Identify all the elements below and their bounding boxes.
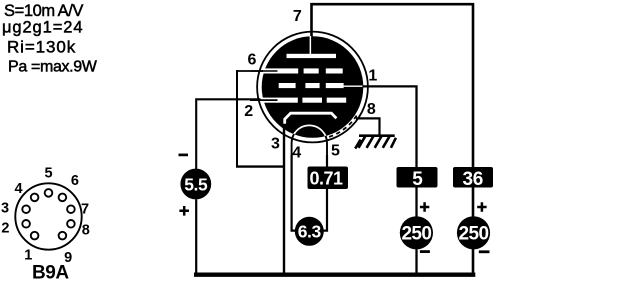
plus sign right 250 <box>477 202 486 211</box>
meter box 5 <box>397 167 438 188</box>
svg-text:7: 7 <box>293 8 302 25</box>
svg-text:2: 2 <box>244 103 253 120</box>
ground chassis symbol <box>355 136 396 149</box>
svg-text:250: 250 <box>459 223 489 244</box>
svg-text:6.3: 6.3 <box>298 221 322 241</box>
svg-text:1: 1 <box>24 248 32 264</box>
svg-text:36: 36 <box>463 169 484 190</box>
bus bottom <box>194 273 475 277</box>
wire horizontal y166.5 to pin3 <box>236 165 285 167</box>
wire pin6 horizontal <box>236 70 278 72</box>
svg-text:3: 3 <box>1 201 9 217</box>
grid row3 dashes <box>277 98 298 103</box>
minus sign 5.5 <box>179 154 189 157</box>
supply circle 250 left <box>400 216 433 249</box>
svg-text:7: 7 <box>81 201 89 217</box>
plus sign 5.5 <box>179 206 189 216</box>
wire pin5 below 0.71 box to 6.3 <box>321 188 327 231</box>
svg-text:0.71: 0.71 <box>309 169 343 189</box>
row1 entry wire <box>251 70 278 72</box>
svg-text:5: 5 <box>412 169 423 190</box>
anode plate bar <box>287 54 337 58</box>
svg-text:6: 6 <box>248 52 257 69</box>
supply circle 250 right <box>457 216 490 249</box>
meter box 0.71 <box>308 167 349 190</box>
svg-text:4: 4 <box>292 145 301 162</box>
wire bias branch below 5.5 to bus <box>195 199 197 275</box>
tube envelope <box>257 32 368 143</box>
svg-text:5: 5 <box>45 165 53 181</box>
svg-text:2: 2 <box>1 221 9 237</box>
wire pin7 top run to right rail <box>312 4 474 167</box>
row3 entry wire <box>250 99 278 101</box>
wire 5-box rail lower <box>415 187 417 217</box>
wire pin2 horizontal to bias branch <box>196 99 277 169</box>
tube black disc <box>262 36 364 138</box>
row1 entry slot <box>263 68 278 73</box>
wire pin4 heater down to 6.3 <box>292 155 298 231</box>
wire 36-box rail lower <box>472 187 475 217</box>
wire pin3 cathode down to bus <box>283 124 285 275</box>
svg-text:6: 6 <box>71 173 79 189</box>
wire pin8 to ground <box>356 118 380 135</box>
socket pin holes <box>22 189 74 239</box>
svg-text:Pa =max.9W: Pa =max.9W <box>8 58 98 75</box>
meter box 36 <box>453 167 493 188</box>
shield dashed arc to pin 8 <box>328 116 357 138</box>
minus sign left 250 <box>420 250 430 253</box>
row3 entry slot <box>261 98 278 103</box>
svg-text:Ri=130k: Ri=130k <box>7 38 76 57</box>
svg-text:3: 3 <box>271 135 280 152</box>
wire pin5 heater to 0.71 box <box>326 155 328 168</box>
wire junction vertical x237 <box>236 70 238 167</box>
battery circle 5.5 <box>180 169 211 200</box>
svg-text:5: 5 <box>331 143 340 160</box>
wire pin1 to 5-box rail <box>361 86 417 167</box>
plus sign left 250 <box>420 202 429 211</box>
svg-text:S=10m A/V: S=10m A/V <box>4 2 83 20</box>
svg-text:8: 8 <box>367 101 376 118</box>
svg-text:μg2g1=24: μg2g1=24 <box>2 19 83 37</box>
B9A socket outline <box>15 183 81 249</box>
minus sign right 250 <box>479 250 490 253</box>
svg-text:4: 4 <box>14 181 22 197</box>
svg-text:8: 8 <box>82 222 90 238</box>
grid row1 dashes <box>277 68 298 73</box>
svg-text:5.5: 5.5 <box>184 174 208 194</box>
heater dome white (inside disc) <box>292 125 327 160</box>
pin7 inner lead <box>310 36 312 54</box>
heater dome black <box>292 125 327 160</box>
svg-text:1: 1 <box>368 67 377 84</box>
heater circle 6.3 <box>295 217 324 246</box>
grid row2 dashes <box>279 83 296 88</box>
svg-text:250: 250 <box>401 223 431 244</box>
cathode <box>285 113 337 124</box>
svg-text:B9A: B9A <box>32 263 69 281</box>
row2 exit white lead <box>344 85 363 87</box>
